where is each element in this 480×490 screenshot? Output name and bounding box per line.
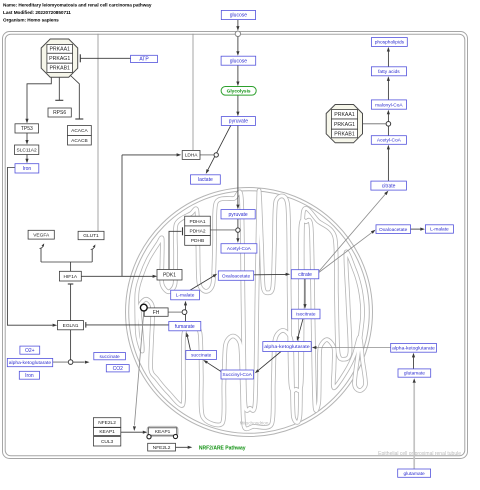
svg-text:Mitochondrion: Mitochondrion [240, 421, 269, 426]
svg-text:CUL3: CUL3 [101, 439, 114, 445]
svg-text:PRKAG1: PRKAG1 [49, 56, 70, 62]
svg-text:KEAP1: KEAP1 [99, 429, 115, 435]
svg-text:FH: FH [153, 310, 160, 316]
svg-text:NFE2L2: NFE2L2 [153, 445, 171, 451]
svg-text:ACACB: ACACB [71, 138, 88, 144]
svg-text:alpha-ketoglutarate: alpha-ketoglutarate [392, 346, 435, 352]
svg-text:PDHB: PDHB [191, 238, 204, 244]
svg-text:TP53: TP53 [21, 126, 33, 132]
svg-text:fumarate: fumarate [175, 324, 195, 330]
svg-text:lactate: lactate [198, 177, 213, 183]
svg-text:glucose: glucose [230, 13, 247, 19]
svg-text:NFE2L2: NFE2L2 [98, 420, 116, 426]
svg-text:alpha-ketoglutarate: alpha-ketoglutarate [9, 360, 52, 366]
svg-text:malonyl-CoA: malonyl-CoA [375, 102, 403, 108]
svg-text:Name: Hereditary leiomyomatosi: Name: Hereditary leiomyomatosis and rena… [3, 2, 152, 7]
svg-text:ACACA: ACACA [71, 128, 88, 134]
svg-text:VEGFA: VEGFA [33, 232, 50, 238]
svg-text:NRF2/ARE Pathway: NRF2/ARE Pathway [199, 445, 246, 451]
svg-text:alpha-ketoglutarate: alpha-ketoglutarate [264, 344, 310, 350]
svg-text:glutamate: glutamate [404, 371, 425, 377]
svg-text:L-malate: L-malate [176, 293, 195, 299]
svg-text:Organism: Homo sapiens: Organism: Homo sapiens [3, 17, 59, 22]
svg-text:succinate: succinate [191, 353, 212, 359]
svg-text:glucose: glucose [230, 58, 247, 64]
svg-text:Succinyl-CoA: Succinyl-CoA [222, 372, 252, 378]
svg-text:RPS6: RPS6 [53, 110, 66, 116]
svg-text:SLC11A2: SLC11A2 [17, 147, 38, 153]
svg-text:citrate: citrate [298, 272, 312, 278]
svg-text:PDHA1: PDHA1 [190, 219, 206, 225]
svg-text:succinate: succinate [99, 354, 120, 360]
svg-text:KEAP1: KEAP1 [155, 429, 171, 435]
svg-text:glutamate: glutamate [404, 471, 425, 477]
svg-text:PRKAB1: PRKAB1 [334, 131, 355, 137]
svg-text:PDHA2: PDHA2 [190, 228, 206, 234]
svg-text:LDHA: LDHA [185, 153, 199, 159]
svg-text:Oxaloacetate: Oxaloacetate [222, 273, 251, 279]
svg-text:Glycolysis: Glycolysis [227, 89, 251, 95]
svg-text:EGLN1: EGLN1 [63, 323, 79, 329]
svg-text:GLUT1: GLUT1 [83, 233, 99, 239]
svg-text:CO2: CO2 [113, 366, 124, 372]
svg-text:Iron: Iron [25, 373, 34, 379]
svg-text:Acetyl-CoA: Acetyl-CoA [227, 246, 252, 252]
svg-text:Iron: Iron [23, 166, 32, 172]
svg-text:fatty acids: fatty acids [378, 69, 400, 75]
svg-text:HIF1A: HIF1A [63, 274, 77, 280]
svg-text:pyruvate: pyruvate [229, 119, 248, 125]
svg-text:PDK1: PDK1 [163, 272, 176, 278]
svg-text:ATP: ATP [139, 57, 149, 63]
svg-text:PRKAG1: PRKAG1 [334, 122, 355, 128]
svg-text:Oxaloacetate: Oxaloacetate [379, 227, 408, 233]
svg-text:L-malate: L-malate [430, 227, 449, 233]
svg-text:citrate: citrate [382, 183, 396, 189]
svg-text:phospholipids: phospholipids [375, 40, 405, 46]
svg-text:isocitrate: isocitrate [296, 312, 316, 318]
svg-text:PRKAA1: PRKAA1 [49, 47, 70, 53]
svg-text:PRKAA1: PRKAA1 [334, 112, 355, 118]
svg-text:pyruvate: pyruvate [229, 212, 248, 218]
svg-text:PRKAB1: PRKAB1 [49, 66, 70, 72]
svg-text:Acetyl-CoA: Acetyl-CoA [377, 138, 402, 144]
svg-text:O2+: O2+ [25, 348, 35, 354]
svg-text:Last Modified: 20220720850711: Last Modified: 20220720850711 [3, 10, 71, 15]
svg-text:Epithelial cell or proximal re: Epithelial cell or proximal renal tubule [378, 451, 461, 457]
